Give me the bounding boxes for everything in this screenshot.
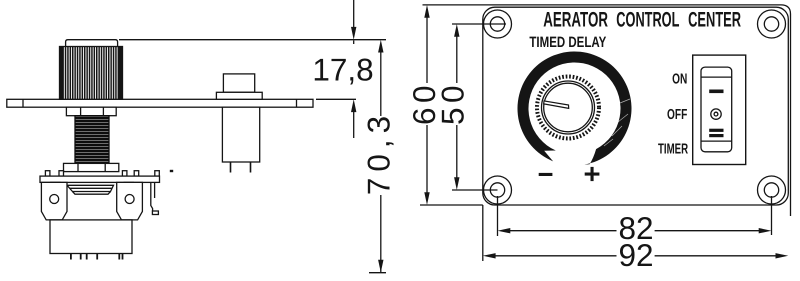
svg-text:92: 92 bbox=[618, 237, 653, 273]
svg-text:OFF: OFF bbox=[667, 107, 687, 123]
svg-text:CONTROL: CONTROL bbox=[616, 9, 679, 32]
svg-text:CENTER: CENTER bbox=[688, 9, 741, 32]
svg-text:ON: ON bbox=[672, 72, 687, 88]
svg-text:70,3: 70,3 bbox=[361, 110, 397, 195]
svg-text:50: 50 bbox=[435, 81, 471, 125]
svg-text:AERATOR: AERATOR bbox=[543, 9, 608, 32]
svg-text:TIMED DELAY: TIMED DELAY bbox=[529, 34, 606, 51]
svg-text:17,8: 17,8 bbox=[312, 52, 373, 88]
svg-text:TIMER: TIMER bbox=[658, 142, 688, 158]
